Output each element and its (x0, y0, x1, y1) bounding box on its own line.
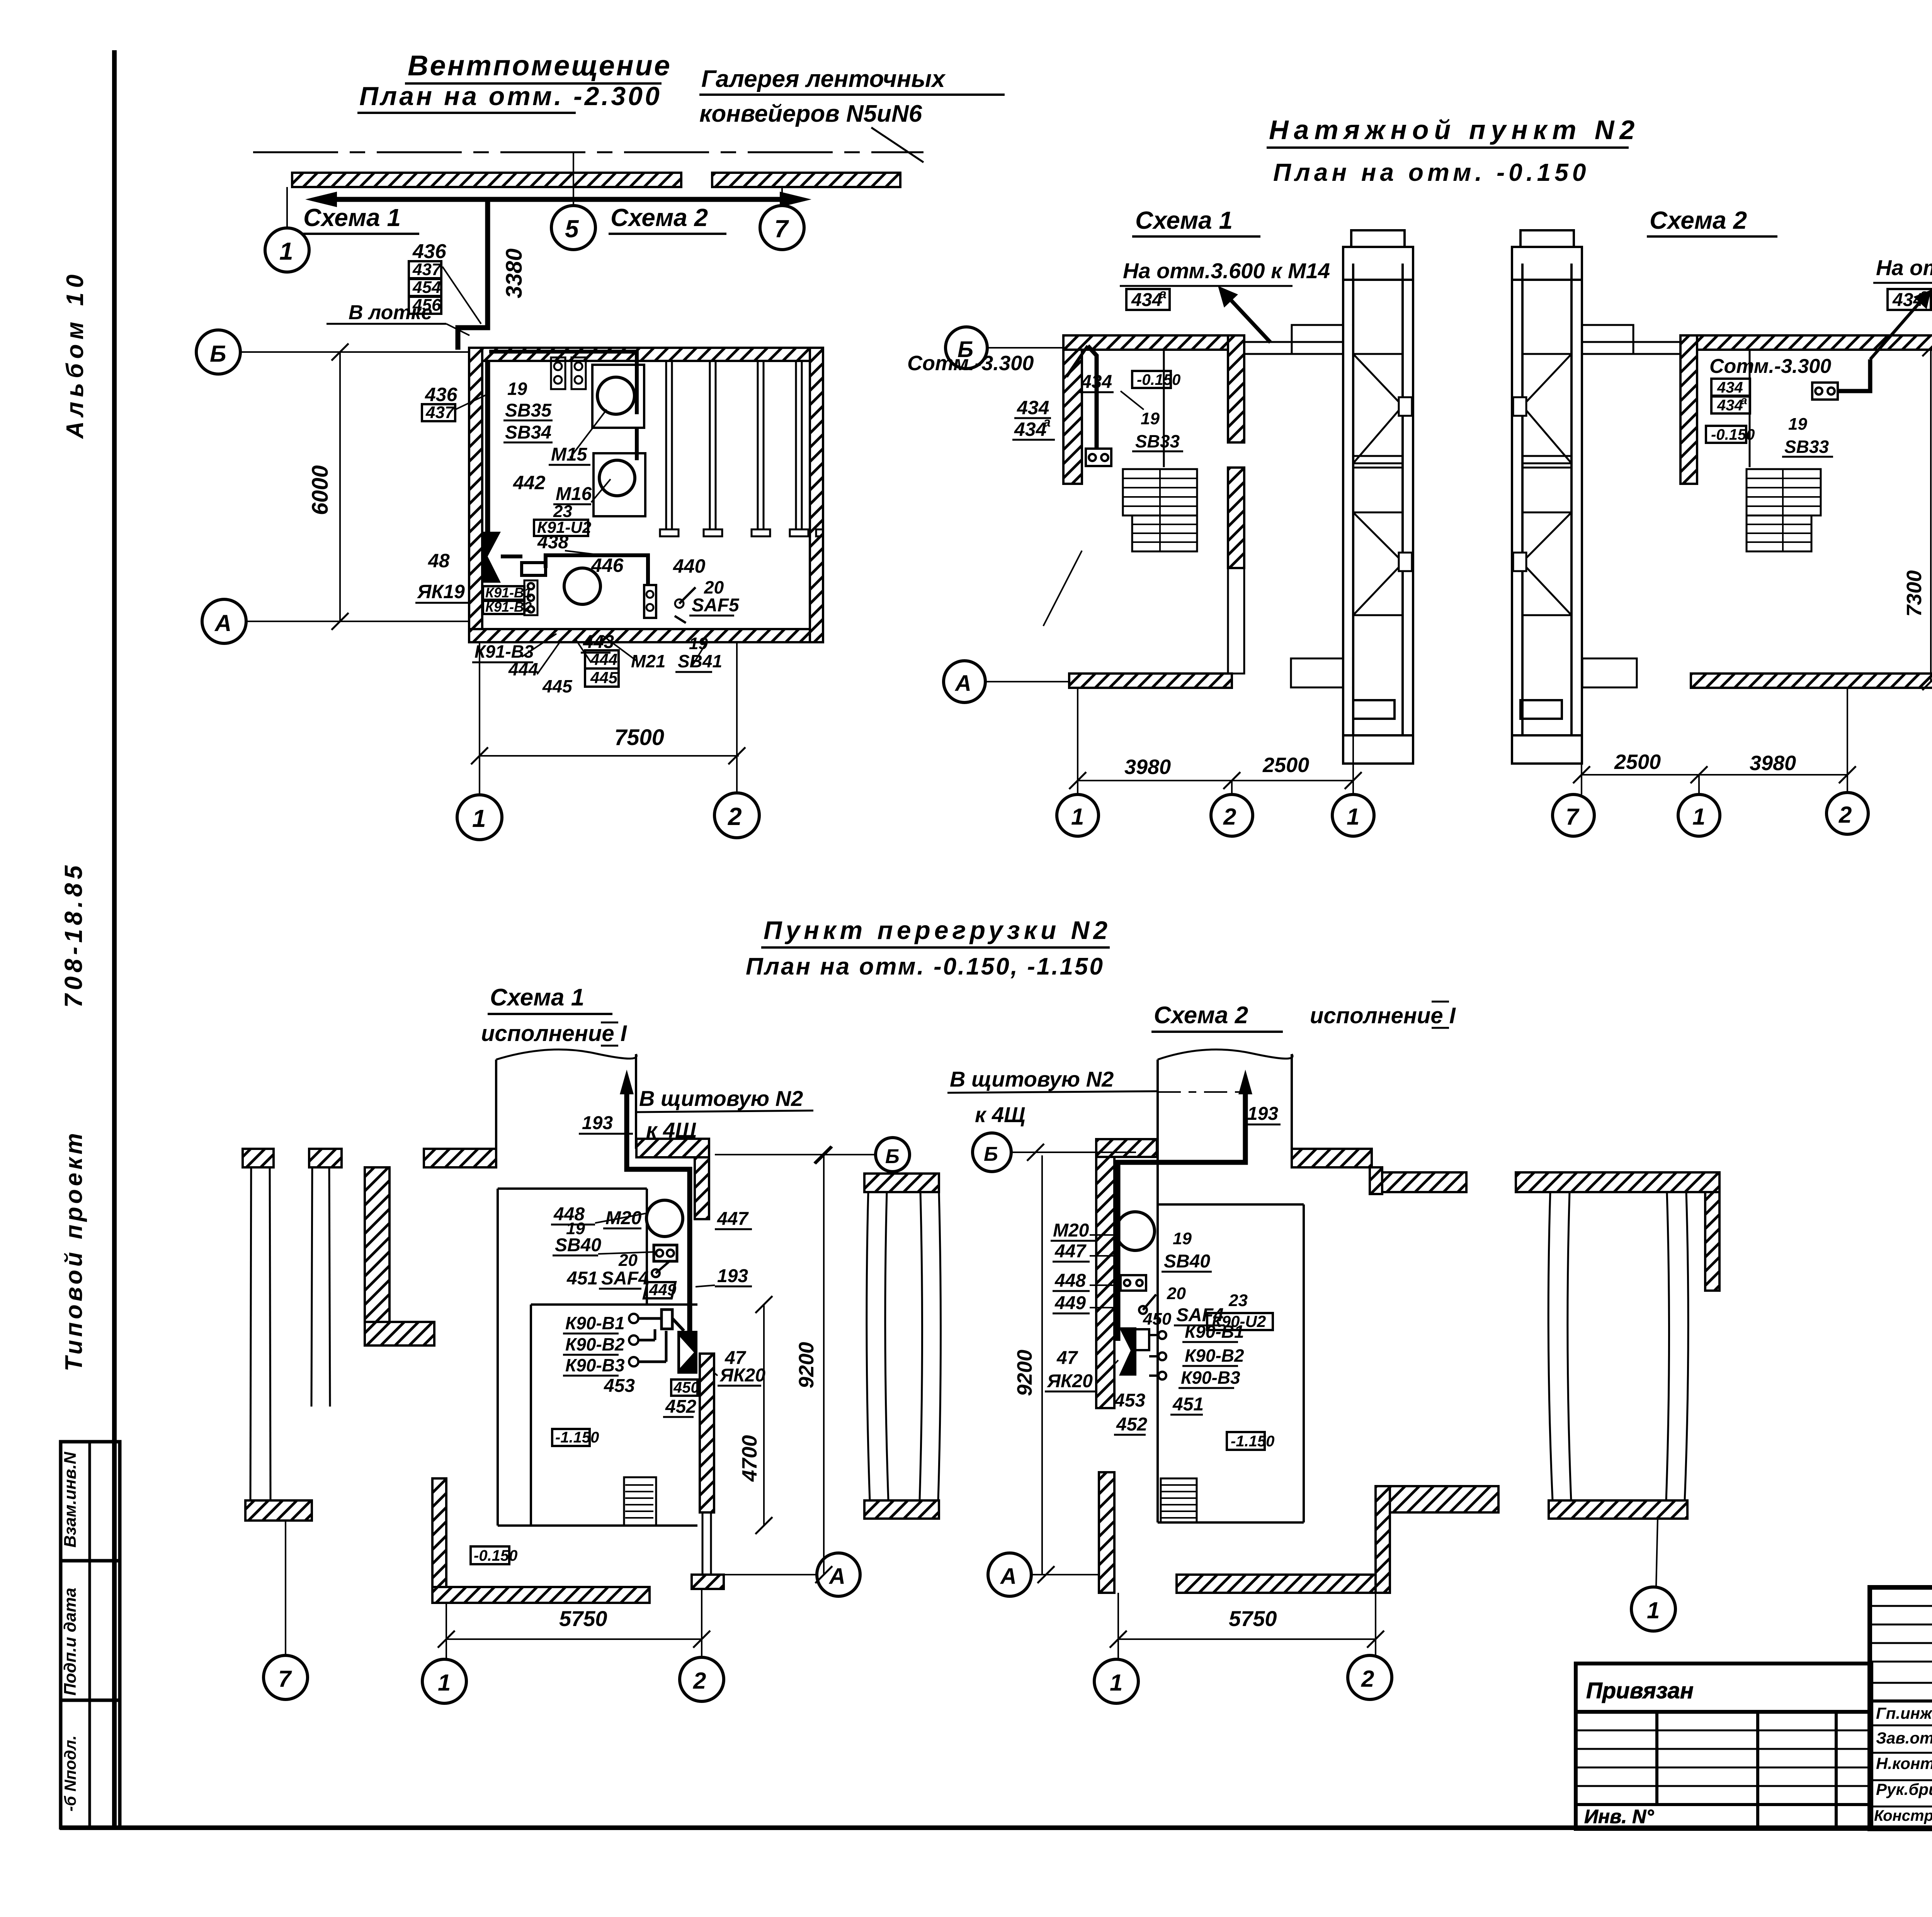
svg-text:434: 434 (1892, 290, 1923, 310)
svg-text:48: 48 (428, 550, 450, 572)
svg-text:-б Nподл.: -б Nподл. (61, 1735, 79, 1812)
svg-text:К91-В3: К91-В3 (474, 641, 534, 662)
svg-text:Б: Б (885, 1145, 900, 1168)
svg-text:1: 1 (1647, 1597, 1660, 1623)
svg-text:434: 434 (1717, 379, 1743, 396)
svg-text:450: 450 (1143, 1310, 1172, 1328)
svg-text:1: 1 (1347, 804, 1359, 830)
svg-text:454: 454 (412, 278, 441, 297)
svg-text:-1.150: -1.150 (1231, 1433, 1274, 1450)
svg-text:2: 2 (728, 803, 742, 830)
svg-text:SB35: SB35 (505, 400, 552, 421)
svg-text:а: а (1920, 287, 1928, 301)
svg-text:436: 436 (412, 240, 447, 263)
svg-text:ЯК20: ЯК20 (719, 1365, 765, 1386)
svg-text:-0.150: -0.150 (474, 1547, 517, 1564)
svg-text:2: 2 (1223, 804, 1236, 830)
svg-text:1: 1 (472, 805, 486, 832)
svg-text:На отм.3.500 к М14: На отм.3.500 к М14 (1876, 255, 1932, 280)
svg-text:452: 452 (1116, 1414, 1147, 1435)
svg-text:а: а (1741, 394, 1747, 407)
svg-text:7: 7 (1566, 804, 1580, 830)
svg-text:446: 446 (591, 555, 624, 576)
svg-text:5: 5 (565, 215, 579, 243)
svg-text:Взам.инв.N: Взам.инв.N (61, 1451, 80, 1548)
svg-text:SB40: SB40 (555, 1235, 601, 1255)
svg-text:К90-В2: К90-В2 (1185, 1345, 1244, 1366)
svg-text:Сотм.-3.300: Сотм.-3.300 (907, 352, 1034, 375)
svg-text:Н.контр.: Н.контр. (1876, 1754, 1932, 1772)
svg-text:1: 1 (1692, 804, 1705, 830)
svg-text:исполнение I: исполнение I (1310, 1003, 1456, 1028)
svg-text:3980: 3980 (1124, 755, 1171, 779)
svg-text:-1.150: -1.150 (555, 1429, 599, 1446)
svg-text:437: 437 (412, 260, 442, 279)
svg-text:19: 19 (1173, 1229, 1192, 1248)
svg-text:19: 19 (507, 379, 527, 399)
svg-text:19: 19 (1788, 415, 1807, 434)
svg-text:3380: 3380 (502, 248, 527, 298)
svg-text:708-18.85: 708-18.85 (60, 862, 87, 1008)
svg-text:К90-В1: К90-В1 (1185, 1322, 1244, 1342)
svg-text:Подп.и дата: Подп.и дата (61, 1588, 80, 1696)
svg-text:20: 20 (1167, 1284, 1186, 1303)
svg-text:к 4Щ: к 4Щ (975, 1102, 1025, 1127)
svg-text:SB34: SB34 (505, 422, 551, 443)
svg-text:А: А (214, 610, 231, 636)
svg-text:Схема 1: Схема 1 (1135, 206, 1233, 234)
svg-text:В щитовую N2: В щитовую N2 (639, 1086, 803, 1111)
svg-text:-0.150: -0.150 (1137, 371, 1180, 388)
svg-text:А: А (954, 671, 971, 696)
svg-text:SB33: SB33 (1135, 431, 1180, 451)
svg-text:453: 453 (1114, 1390, 1145, 1411)
svg-text:448: 448 (1054, 1271, 1086, 1291)
svg-text:Б: Б (210, 341, 226, 367)
svg-text:К91-В2: К91-В2 (485, 599, 532, 615)
svg-text:20: 20 (704, 577, 724, 597)
svg-text:К90-В3: К90-В3 (565, 1355, 625, 1375)
svg-text:7300: 7300 (1903, 570, 1926, 617)
svg-text:SAF5: SAF5 (692, 595, 740, 616)
svg-text:9200: 9200 (1013, 1350, 1036, 1396)
svg-text:2: 2 (693, 1668, 706, 1694)
svg-text:ЯК19: ЯК19 (417, 581, 465, 602)
svg-text:К90-В2: К90-В2 (565, 1334, 625, 1354)
svg-text:434: 434 (1717, 397, 1743, 414)
svg-text:445: 445 (542, 676, 573, 696)
svg-text:Вентпомещение: Вентпомещение (408, 49, 672, 82)
svg-text:434: 434 (1081, 372, 1112, 392)
svg-text:SB40: SB40 (1164, 1251, 1210, 1272)
svg-text:-0.150: -0.150 (1711, 426, 1755, 443)
svg-text:19: 19 (1141, 409, 1160, 428)
svg-text:В лотке: В лотке (349, 301, 432, 324)
svg-text:1: 1 (1110, 1670, 1122, 1696)
svg-text:Типовой проект: Типовой проект (61, 1130, 87, 1371)
svg-text:Привязан: Привязан (1586, 1678, 1694, 1703)
svg-text:конвейеров N5иN6: конвейеров N5иN6 (699, 100, 922, 127)
svg-text:6000: 6000 (308, 465, 333, 515)
svg-text:Гп.инж.пр: Гп.инж.пр (1876, 1704, 1932, 1722)
svg-text:20: 20 (618, 1251, 638, 1270)
svg-text:Инв. N°: Инв. N° (1584, 1806, 1654, 1827)
svg-text:Схема 2: Схема 2 (1154, 1002, 1248, 1029)
svg-text:Констр.кат: Констр.кат (1874, 1807, 1932, 1824)
svg-text:М15: М15 (551, 444, 588, 465)
svg-text:К90-В1: К90-В1 (565, 1313, 625, 1333)
svg-text:450: 450 (673, 1379, 699, 1396)
svg-text:447: 447 (1054, 1241, 1087, 1262)
svg-text:Галерея ленточных: Галерея ленточных (701, 66, 946, 92)
svg-text:Пункт перегрузки N2: Пункт перегрузки N2 (764, 916, 1111, 944)
svg-text:Зав.отд.: Зав.отд. (1876, 1729, 1932, 1747)
svg-text:2500: 2500 (1262, 754, 1309, 777)
svg-text:451: 451 (566, 1268, 598, 1289)
svg-text:2500: 2500 (1614, 750, 1661, 774)
svg-text:Схема 2: Схема 2 (611, 204, 708, 231)
svg-text:А: А (828, 1564, 845, 1589)
svg-text:К90-В3: К90-В3 (1181, 1368, 1240, 1388)
svg-text:исполнение I: исполнение I (481, 1021, 628, 1046)
svg-text:449: 449 (1054, 1293, 1086, 1313)
svg-text:193: 193 (582, 1113, 613, 1133)
svg-text:1: 1 (279, 237, 293, 265)
svg-text:453: 453 (604, 1376, 635, 1396)
svg-text:М16: М16 (556, 484, 592, 504)
svg-text:440: 440 (673, 555, 706, 577)
svg-text:Сотм.-3.300: Сотм.-3.300 (1709, 355, 1831, 378)
svg-text:444: 444 (508, 659, 538, 679)
svg-text:2: 2 (1361, 1666, 1374, 1692)
svg-text:7: 7 (774, 215, 789, 243)
svg-text:Схема 2: Схема 2 (1650, 206, 1747, 234)
svg-text:Альбом 10: Альбом 10 (62, 270, 88, 439)
svg-text:434: 434 (1131, 290, 1162, 310)
svg-text:В щитовую N2: В щитовую N2 (950, 1067, 1114, 1091)
svg-text:А: А (1000, 1564, 1017, 1589)
svg-text:На отм.3.600 к М14: На отм.3.600 к М14 (1123, 259, 1330, 283)
svg-text:443: 443 (583, 632, 614, 652)
svg-text:М20: М20 (1053, 1220, 1089, 1241)
svg-text:193: 193 (1247, 1104, 1278, 1124)
svg-text:3980: 3980 (1750, 752, 1796, 775)
svg-text:445: 445 (590, 668, 618, 687)
svg-text:1: 1 (438, 1670, 451, 1696)
svg-text:434: 434 (1014, 418, 1046, 440)
svg-text:1: 1 (1071, 804, 1084, 830)
svg-text:План на отм. -0.150, -1.150: План на отм. -0.150, -1.150 (746, 953, 1104, 980)
svg-text:438: 438 (537, 532, 568, 553)
svg-text:436: 436 (425, 384, 458, 405)
svg-text:а: а (1043, 415, 1051, 430)
svg-text:ЯК20: ЯК20 (1046, 1371, 1093, 1391)
svg-text:М20: М20 (605, 1208, 642, 1228)
svg-text:7500: 7500 (614, 725, 664, 750)
svg-text:Схема 1: Схема 1 (490, 984, 584, 1011)
svg-text:SB33: SB33 (1784, 437, 1829, 457)
svg-text:План на отм. -0.150: План на отм. -0.150 (1273, 158, 1590, 186)
svg-text:Натяжной пункт N2: Натяжной пункт N2 (1269, 115, 1640, 145)
svg-text:9200: 9200 (795, 1342, 818, 1388)
svg-text:447: 447 (717, 1209, 749, 1229)
svg-text:7: 7 (278, 1666, 292, 1692)
svg-text:442: 442 (513, 472, 546, 493)
svg-text:Рук.бриг.: Рук.бриг. (1876, 1780, 1932, 1798)
svg-text:193: 193 (717, 1266, 748, 1286)
svg-text:SAF4: SAF4 (601, 1268, 649, 1289)
svg-text:451: 451 (1172, 1394, 1204, 1415)
svg-text:47: 47 (1056, 1348, 1078, 1368)
svg-text:449: 449 (649, 1281, 677, 1299)
svg-text:5750: 5750 (559, 1606, 607, 1631)
svg-text:Б: Б (984, 1143, 998, 1165)
svg-text:5750: 5750 (1229, 1606, 1277, 1631)
svg-text:2: 2 (1838, 802, 1852, 828)
svg-text:452: 452 (665, 1397, 696, 1417)
svg-text:4700: 4700 (738, 1435, 761, 1482)
svg-text:437: 437 (425, 403, 455, 422)
svg-text:а: а (1159, 287, 1167, 301)
svg-text:Схема 1: Схема 1 (303, 204, 401, 231)
svg-text:План на отм. -2.300: План на отм. -2.300 (359, 82, 662, 111)
svg-text:23: 23 (1228, 1291, 1248, 1310)
